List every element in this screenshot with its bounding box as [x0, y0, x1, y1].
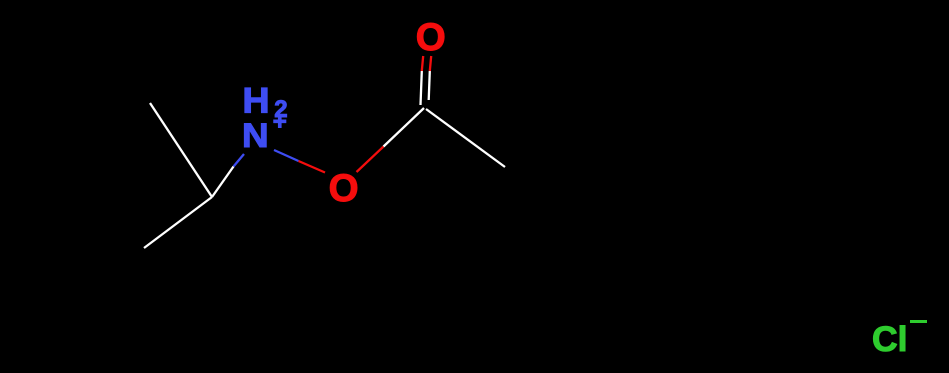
bond N-O red half near O	[299, 161, 326, 173]
bond C2-methyl m1	[150, 103, 212, 197]
C1=O double bond right line red half	[430, 56, 431, 71]
svg-text:O: O	[329, 167, 359, 210]
chloride minus sign	[910, 320, 927, 323]
bond O-C1 white half	[384, 108, 425, 147]
svg-text:O: O	[416, 16, 446, 59]
svg-text:+: +	[273, 109, 287, 136]
bond C1-methyl m3	[426, 109, 505, 167]
bond N-C2 white half	[212, 167, 234, 198]
bond C2-methyl m2	[144, 197, 212, 248]
bond N-O blue half near N	[274, 150, 299, 161]
svg-text:N: N	[242, 116, 269, 155]
svg-text:Cl: Cl	[872, 319, 908, 359]
bond N-C2 blue half near N	[234, 154, 245, 167]
bond O-C1 red half near O	[357, 147, 384, 173]
C1=O double bond left line white half	[421, 71, 422, 105]
C1=O double bond left line red half	[422, 56, 423, 71]
C1=O double bond right line white half	[429, 71, 430, 100]
svg-text:H: H	[243, 81, 270, 121]
